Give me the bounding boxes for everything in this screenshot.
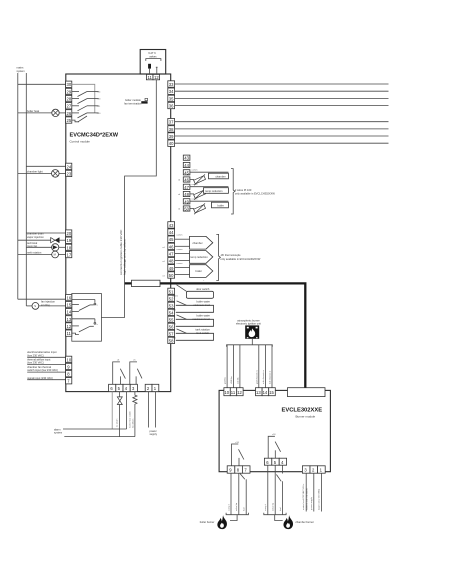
changeover contact S2 [72, 300, 99, 312]
wire terminal 20 to bus L2 [26, 232, 65, 234]
terminal strip 6-4 burner [264, 458, 286, 465]
thermocouple boiler [175, 263, 213, 282]
svg-text:system: system [17, 69, 25, 73]
svg-text:temp reduction: temp reduction [205, 189, 223, 193]
connector icon fan termination [141, 98, 147, 103]
terminal strip 20-17 [66, 230, 72, 258]
svg-text:40: 40 [169, 141, 174, 146]
svg-text:35: 35 [169, 96, 174, 101]
svg-text:comm: comm [192, 184, 198, 186]
svg-text:comp t: comp t [227, 504, 230, 511]
svg-text:48: 48 [184, 192, 189, 197]
wire burner 6 down [264, 465, 268, 515]
relay inner box [72, 294, 102, 342]
wire alarm line A [63, 428, 127, 430]
terminal strip 2-1 bottom [145, 384, 159, 391]
wire 33 [175, 83, 389, 85]
svg-text:45: 45 [184, 170, 189, 175]
svg-text:comm: comm [192, 170, 198, 172]
thermistor Pt100 boiler [190, 199, 229, 215]
svg-text:valves: valves [149, 54, 157, 58]
svg-text:chamber: chamber [193, 241, 203, 245]
wire drop tub chassis [269, 345, 273, 388]
svg-text:system: system [54, 431, 62, 435]
switch boiler water maximum level [172, 314, 214, 327]
svg-text:boiler flow switch: boiler flow switch [129, 410, 132, 427]
switch tank rotation limit switch [172, 328, 214, 341]
relay contacts K internal 29-25 [72, 92, 101, 122]
wire bracket in top box [146, 59, 161, 61]
svg-text:25: 25 [67, 118, 72, 123]
svg-text:55: 55 [169, 317, 174, 322]
svg-text:11: 11 [231, 390, 236, 395]
lamp boiler heat [18, 109, 66, 116]
svg-text:maximum level: maximum level [193, 317, 211, 321]
node bracket chamber burner [264, 513, 286, 521]
label signal input [27, 376, 65, 380]
node bracket thermocouple [216, 234, 220, 280]
svg-text:Control module: Control module [70, 140, 91, 144]
wire from terminal 12 down-left-down [101, 80, 156, 318]
svg-text:only available in EVCLCH302XXW: only available in EVCLCH302XXW [220, 257, 260, 261]
fuse F1 in top box [148, 64, 151, 74]
flame boiler burner [217, 515, 227, 529]
node bracket boiler burner [226, 513, 248, 521]
svg-text:36: 36 [169, 104, 174, 109]
thermocouple temp reduction [175, 249, 213, 268]
svg-text:18: 18 [67, 245, 72, 250]
svg-text:20: 20 [67, 231, 72, 236]
svg-text:6 AT 6: 6 AT 6 [148, 51, 156, 55]
wire drop sab [237, 345, 240, 388]
terminal strip 10-7 [66, 356, 72, 384]
valve V1 [18, 238, 66, 243]
svg-text:S: S [34, 304, 36, 308]
svg-text:EVCLE302XXE: EVCLE302XXE [282, 408, 323, 414]
svg-text:minimum level: minimum level [194, 303, 211, 307]
svg-text:comm: comm [177, 263, 183, 265]
thermocouple chamber [175, 235, 213, 254]
op-amp control module box EVCMC34D*2EXW [66, 74, 171, 392]
wire 39 [175, 135, 389, 137]
terminal 12 top box [153, 74, 160, 80]
svg-text:vapor injection: vapor injection [27, 235, 44, 239]
svg-text:J/K thermocouple: J/K thermocouple [220, 253, 241, 257]
svg-text:melt rotation: melt rotation [27, 251, 42, 255]
wire terminal 6 down [111, 392, 113, 429]
svg-text:chamber: chamber [216, 174, 226, 178]
svg-text:34: 34 [169, 89, 174, 94]
wire burner 5 down [273, 465, 276, 515]
op-amp burner module box EVCLE302XXE [219, 390, 330, 471]
svg-text:12: 12 [237, 390, 242, 395]
wire 34 [175, 90, 389, 92]
svg-text:43: 43 [184, 156, 189, 161]
flame chamber burner [283, 515, 293, 529]
svg-text:mbr chassis w: mbr chassis w [262, 370, 265, 384]
svg-text:electronic ignition unit: electronic ignition unit [236, 322, 261, 326]
svg-text:30: 30 [67, 82, 72, 87]
svg-text:57: 57 [169, 331, 174, 336]
svg-text:Burner module: Burner module [296, 414, 316, 418]
svg-text:47: 47 [169, 252, 174, 257]
label technical room fan [27, 241, 38, 248]
svg-text:46: 46 [184, 178, 189, 183]
svg-text:10: 10 [67, 357, 72, 362]
svg-text:10: 10 [224, 390, 229, 395]
node white label box on thick wire [132, 280, 161, 286]
wire 38 [175, 128, 389, 130]
terminal strip 30-25 [66, 81, 72, 123]
svg-text:50: 50 [184, 207, 189, 212]
switch door switch [172, 285, 214, 299]
svg-text:nc alarm: nc alarm [116, 418, 119, 427]
label chamber fan thermal [27, 365, 65, 372]
svg-text:12: 12 [67, 324, 72, 329]
wire ignition bracket [227, 345, 273, 347]
svg-text:44: 44 [184, 163, 189, 168]
wire terminal 24 to bus L2 [26, 165, 65, 167]
svg-text:M: M [54, 253, 56, 257]
relay contact c18 right [268, 434, 280, 458]
svg-text:boiler: boiler [196, 269, 202, 273]
svg-text:12: 12 [154, 75, 159, 80]
wire burner 9 down [227, 473, 231, 515]
svg-text:51: 51 [169, 289, 174, 294]
svg-text:37: 37 [169, 120, 174, 125]
wire ignition unit stub [251, 339, 253, 345]
svg-text:17: 17 [67, 253, 72, 258]
wire mains bus L1 [17, 73, 19, 299]
svg-text:chamber burner: chamber burner [296, 520, 314, 524]
wire 36 [175, 105, 389, 107]
wire terminal 30 to bus [18, 83, 66, 85]
svg-text:power supply: power supply [310, 496, 313, 510]
terminal strip 9-7 burner [227, 466, 250, 473]
terminal strip 13-15 burner [256, 388, 276, 396]
lamp chamber light [18, 170, 66, 178]
svg-text:fuel: fuel [244, 507, 246, 511]
svg-text:28: 28 [67, 97, 72, 102]
wire terminal 4 down [126, 392, 128, 429]
ignition unit icon [245, 325, 259, 338]
svg-text:boiler burner: boiler burner [200, 520, 215, 524]
wire terminal 2 down [148, 392, 150, 428]
thermistor Pt100 temp reduction [190, 184, 229, 200]
svg-text:14: 14 [263, 390, 268, 395]
node boiler module fan termination label [124, 98, 142, 105]
svg-text:24: 24 [67, 164, 72, 169]
wire drop t mb [230, 345, 234, 388]
label chamber drain [27, 232, 44, 239]
svg-text:23: 23 [67, 171, 72, 176]
svg-text:27: 27 [67, 104, 72, 109]
svg-text:gnd bu: gnd bu [225, 377, 227, 384]
node mains bus labels [17, 66, 25, 73]
svg-text:EVCMC34D*2EXW: EVCMC34D*2EXW [70, 133, 119, 139]
label alarm system [54, 427, 62, 434]
svg-text:door switch: door switch [196, 287, 210, 291]
svg-text:supply: supply [150, 432, 158, 436]
svg-text:comm: comm [172, 296, 178, 298]
terminal 11 top box [146, 74, 153, 80]
svg-text:t MB bn: t MB bn [230, 376, 233, 384]
svg-text:13: 13 [67, 317, 72, 322]
wire burner 8 down [236, 473, 239, 515]
svg-text:48: 48 [169, 259, 174, 264]
svg-text:comm: comm [177, 235, 183, 237]
wire terminal 30 internal right and down [72, 84, 95, 113]
terminal strip 6-3 bottom [109, 384, 138, 391]
svg-text:gnd chassis w: gnd chassis w [256, 370, 258, 384]
label thermal airflow input [27, 357, 65, 364]
relay contact c18 left [232, 442, 244, 466]
wire drop gnd [225, 345, 228, 388]
switch and wire burner 4 down [276, 465, 282, 515]
terminal strip 3-1 burner [302, 466, 325, 473]
wire mains bus L2 [25, 73, 27, 306]
svg-text:33: 33 [169, 82, 174, 87]
svg-text:15: 15 [67, 303, 72, 308]
terminal strip 51-58 [168, 288, 175, 343]
wire burner 1 down [320, 473, 322, 511]
svg-text:49: 49 [169, 266, 174, 271]
label power supply [150, 429, 158, 436]
svg-text:switch input (low 230 VAC): switch input (low 230 VAC) [27, 368, 58, 372]
svg-text:boiler: boiler [218, 203, 224, 207]
svg-text:comp t: comp t [264, 504, 267, 511]
svg-text:fuel: fuel [280, 507, 282, 511]
svg-text:50: 50 [169, 273, 174, 278]
resistor boiler flow switch [129, 392, 137, 437]
changeover contact S3 [72, 319, 99, 335]
label electrical alternative input [27, 350, 65, 357]
svg-text:44: 44 [169, 230, 174, 235]
wire thick ignition line [125, 283, 306, 390]
svg-text:signal input (230 VAC): signal input (230 VAC) [27, 376, 53, 380]
svg-text:by others: by others [132, 418, 135, 428]
label atmospheric burner ignition unit [236, 319, 261, 326]
svg-text:temp reduction: temp reduction [191, 255, 209, 259]
svg-text:29: 29 [67, 89, 72, 94]
wire burner 2 down [313, 473, 315, 511]
label power supply burner rotated [302, 484, 320, 510]
svg-text:11: 11 [148, 75, 153, 80]
relay contact c6 bottom [113, 359, 126, 384]
thermistor Pt100 chamber [190, 170, 229, 186]
label rotated ignition cable note [119, 229, 127, 275]
wire 35 [175, 97, 389, 99]
motor M2 [18, 251, 66, 258]
svg-text:valve bu: valve bu [236, 502, 238, 511]
buzzer under terminal 5 [116, 392, 123, 437]
wire burner 3 down [305, 473, 307, 511]
terminal strip 43-50 Pt100 [178, 155, 190, 211]
svg-text:45: 45 [169, 237, 174, 242]
svg-text:14: 14 [67, 310, 72, 315]
svg-text:(low 230 VAC): (low 230 VAC) [27, 353, 44, 357]
svg-text:26: 26 [67, 111, 72, 116]
svg-text:53: 53 [169, 303, 174, 308]
wire terminal 1 down [154, 392, 156, 428]
svg-text:47: 47 [184, 185, 189, 190]
wire drop mbr chassis [262, 345, 266, 388]
svg-text:valve bu: valve bu [273, 502, 275, 511]
svg-text:46: 46 [169, 244, 174, 249]
svg-text:11: 11 [67, 331, 72, 336]
terminal strip 24-23 [66, 163, 72, 176]
wire 37 [175, 121, 389, 123]
switch and wire burner 7 down [240, 474, 246, 515]
svg-text:16: 16 [67, 296, 72, 301]
terminal strip 10-12 burner [224, 388, 243, 396]
motor S1 fan injection [26, 303, 65, 310]
wire drop gnd chassis [256, 345, 259, 388]
terminal strip 37-40 [168, 119, 175, 147]
svg-text:high voltage wire by others: high voltage wire by others [123, 239, 127, 275]
fan M1 [26, 244, 65, 251]
wire alarm line B [64, 436, 135, 438]
switch boiler water minimum level [172, 300, 214, 313]
svg-text:fused 6.3 AT by others: fused 6.3 AT by others [305, 487, 308, 510]
svg-text:43: 43 [169, 223, 174, 228]
label fan injection [41, 300, 55, 307]
svg-text:only available in EVCLCH302XXW: only available in EVCLCH302XXW [235, 191, 275, 195]
svg-text:38: 38 [169, 127, 174, 132]
svg-text:49: 49 [184, 199, 189, 204]
svg-text:39: 39 [169, 134, 174, 139]
svg-text:comm: comm [192, 199, 198, 201]
svg-text:15: 15 [269, 390, 274, 395]
wire 40 [175, 142, 389, 144]
svg-text:input 1 (low 230 VAC): input 1 (low 230 VAC) [317, 489, 320, 510]
node mains connector box burner [288, 388, 326, 397]
svg-text:fan termination: fan termination [124, 101, 142, 105]
sensor electrode in top box [156, 67, 158, 74]
label melt rotation [27, 251, 42, 255]
svg-text:limit switch: limit switch [197, 331, 210, 335]
svg-text:2 wires Pt 100: 2 wires Pt 100 [235, 188, 252, 192]
svg-text:19: 19 [67, 238, 72, 243]
terminal strip 33-36 [168, 81, 175, 109]
svg-text:comm: comm [177, 249, 183, 251]
svg-text:mains feed 230 VAC 50 Hz: mains feed 230 VAC 50 Hz [302, 484, 305, 510]
svg-text:sab bk: sab bk [237, 377, 239, 384]
node bracket Pt100 [231, 169, 235, 214]
terminal strip 43-50 thermocouple [163, 222, 175, 278]
svg-text:tub chassis w: tub chassis w [269, 370, 272, 384]
terminal strip 16-11 [66, 294, 72, 336]
transformer box ignition top [140, 50, 166, 75]
relay contact c5 bottom [130, 359, 142, 384]
wire bus L1 to terminal 16 [18, 298, 66, 300]
svg-text:13: 13 [256, 390, 261, 395]
